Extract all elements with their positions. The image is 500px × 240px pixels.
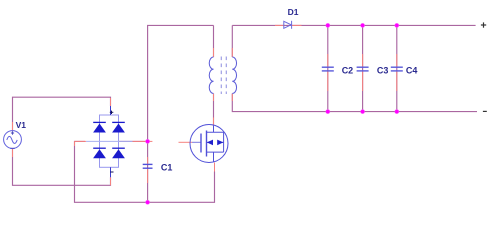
- svg-text:C3: C3: [377, 65, 389, 75]
- svg-text:C4: C4: [406, 65, 418, 75]
- svg-text:D1: D1: [288, 7, 299, 17]
- svg-text:C2: C2: [342, 65, 354, 75]
- svg-text:C1: C1: [161, 162, 173, 172]
- svg-text:V1: V1: [16, 120, 27, 130]
